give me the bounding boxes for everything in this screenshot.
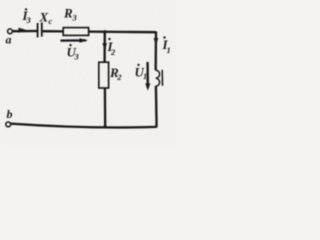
paper background bbox=[0, 0, 176, 146]
capacitor Xc right plate bbox=[41, 22, 43, 36]
junction node top of R2 branch bbox=[103, 30, 107, 34]
right branch vertical wire upper bbox=[155, 32, 158, 71]
node b terminal circle bbox=[6, 122, 11, 127]
current arrow I1 bbox=[154, 38, 159, 45]
bottom wire bbox=[11, 124, 157, 128]
R2 branch wire lower bbox=[104, 88, 107, 127]
svg-text:b: b bbox=[7, 107, 13, 121]
svg-text:3: 3 bbox=[74, 51, 80, 61]
resistor R3 box bbox=[63, 28, 88, 36]
svg-text:3: 3 bbox=[26, 15, 32, 25]
resistor R2 box bbox=[99, 62, 109, 88]
voltage arrow U3 under R3 bbox=[61, 39, 87, 41]
svg-text:1: 1 bbox=[167, 45, 171, 55]
current arrow I3 bbox=[19, 28, 28, 33]
svg-text:X: X bbox=[39, 10, 49, 25]
svg-text:c: c bbox=[49, 16, 53, 26]
junction node bottom of R2 branch bbox=[103, 125, 106, 128]
inductor core bar bbox=[161, 70, 163, 86]
capacitor Xc left plate bbox=[37, 23, 39, 37]
wire R3 to corner bbox=[89, 30, 157, 33]
wire a to capacitor bbox=[13, 30, 37, 33]
svg-text:3: 3 bbox=[72, 13, 78, 23]
svg-text:2: 2 bbox=[116, 72, 122, 82]
labels bbox=[6, 6, 171, 122]
right branch vertical wire lower bbox=[155, 86, 158, 127]
wire capacitor to R3 bbox=[43, 30, 63, 32]
current arrow I2 bbox=[102, 43, 107, 50]
voltage arrow U1 bbox=[146, 62, 148, 88]
inductor L coil arcs bbox=[156, 70, 160, 86]
svg-text:2: 2 bbox=[110, 47, 116, 57]
R2 branch wire upper bbox=[103, 32, 106, 62]
svg-text:a: a bbox=[6, 33, 12, 47]
svg-text:R: R bbox=[63, 6, 73, 21]
svg-text:1: 1 bbox=[143, 71, 147, 81]
node a terminal circle bbox=[8, 29, 13, 34]
